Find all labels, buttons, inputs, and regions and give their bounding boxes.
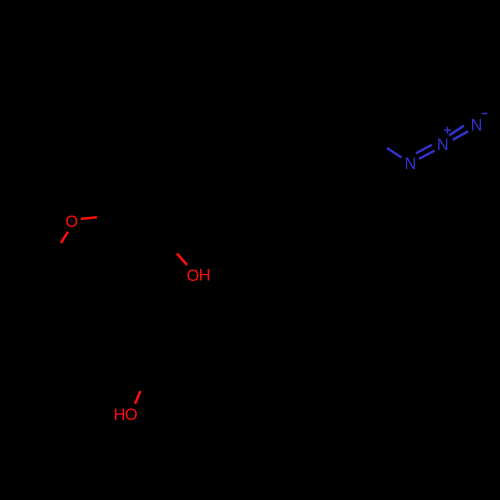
svg-text:O: O bbox=[187, 267, 200, 285]
svg-text:H: H bbox=[114, 406, 126, 424]
svg-text:O: O bbox=[65, 213, 78, 231]
svg-text:O: O bbox=[125, 406, 138, 424]
svg-text:N: N bbox=[471, 117, 483, 135]
svg-text:H: H bbox=[199, 267, 211, 285]
svg-text:N: N bbox=[405, 155, 417, 173]
svg-text:N: N bbox=[437, 136, 449, 154]
